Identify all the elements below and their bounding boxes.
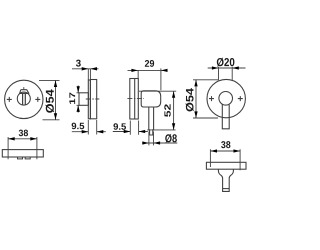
dimension 9.5 left: label <box>72 123 85 130</box>
dimension Ø54 left: extension lines <box>39 80 60 119</box>
dimension 3: arrowheads <box>82 67 97 70</box>
dimension 38 left: dimension line <box>8 138 37 140</box>
dimension 3: label <box>76 60 81 67</box>
dimension Ø20: arrowheads <box>212 66 239 69</box>
left rose profile clip right <box>25 157 30 159</box>
dimension Ø20: label <box>217 58 235 67</box>
right side view flange plate <box>130 79 139 120</box>
dimension 38 right: arrowheads <box>210 149 240 152</box>
dimension 52: label <box>164 104 170 117</box>
dimension 29: dimension line <box>128 69 168 71</box>
dimension Ø8: extension lines <box>149 132 154 146</box>
dimension Ø20: dimension line <box>208 67 246 69</box>
dimension 29: arrowheads <box>131 69 167 72</box>
dimension 9.5 left: dimension line <box>72 131 106 133</box>
left rose profile clip left <box>18 157 23 159</box>
dimension 29: extension lines <box>138 68 161 90</box>
left side view centerline <box>86 98 100 100</box>
dimension 38 right: extension lines <box>210 149 240 170</box>
dimension Ø8: label <box>165 134 177 143</box>
dimension 38 right: dimension line <box>210 150 240 152</box>
dimension 9.5 right: dimension line <box>113 131 148 133</box>
dimension 9.5 right: extension lines <box>130 121 138 135</box>
dimension 9.5 right: arrowheads <box>124 130 146 133</box>
dimension 9.5 left: arrowheads <box>82 130 104 133</box>
dimension 3: dimension line with tails <box>72 68 99 70</box>
dimension Ø54 left: label <box>46 89 55 112</box>
right rose screw mark left <box>209 96 214 101</box>
left rose screw mark left <box>7 97 12 102</box>
thumbturn circle front view <box>17 92 30 105</box>
right knob side view flare and cylinder <box>218 169 233 191</box>
right knob cylinder rim line <box>223 188 230 190</box>
right rose hub circle Ø20 <box>219 92 233 106</box>
left side view thumbturn grip <box>79 93 88 106</box>
left side view body <box>90 80 96 119</box>
left rose profile bar <box>2 150 43 157</box>
dimension 52: dimension line <box>173 91 175 130</box>
dimension 52: arrowheads <box>172 91 175 130</box>
dimension Ø54 right: arrowheads <box>194 80 197 118</box>
right side view flange inner line <box>134 79 136 120</box>
dimension Ø54 right: extension lines <box>193 80 218 118</box>
dimension 38 left: label <box>19 130 28 137</box>
right rose screw mark right <box>238 96 243 101</box>
dimension 17: extension ticks <box>77 93 80 106</box>
right rose profile bar <box>206 162 246 169</box>
left rose screw mark right <box>35 97 40 102</box>
dimension 17: arrowheads <box>77 86 80 112</box>
right side view thumbturn knob <box>141 91 161 107</box>
dimension 52: extension lines <box>139 91 176 130</box>
right side view centerline <box>127 98 144 100</box>
dimension 38 left: extension lines <box>8 137 37 159</box>
right rose front view outer circle <box>207 79 245 117</box>
right side view spindle <box>149 107 154 135</box>
dimension 9.5 left: extension lines <box>88 120 96 135</box>
dimension 38 right: label <box>221 141 230 148</box>
dimension Ø8: arrowheads <box>142 141 160 144</box>
dimension 3: extension lines down to flange <box>88 69 90 80</box>
dimension 17: label <box>69 93 75 104</box>
dimension 9.5 right: label <box>113 123 126 130</box>
thumbturn cap front view <box>20 87 29 93</box>
right rose spindle stem front view <box>222 104 229 129</box>
left rose front view outer circle <box>5 80 43 118</box>
dimension 38 left: arrowheads <box>8 137 37 140</box>
dimension Ø54 right: dimension line <box>195 80 197 118</box>
left side view flange plate 3mm <box>88 80 90 119</box>
thumbturn grip bar lines <box>23 93 26 105</box>
dimension Ø20: extension lines <box>219 67 233 81</box>
dimension Ø8: dimension line <box>142 142 177 144</box>
dimension 29: label <box>145 60 154 67</box>
dimension Ø54 right: label <box>186 88 194 111</box>
dimension 17: dimension line segments <box>77 86 79 113</box>
dimension Ø54 left: dimension line <box>55 80 57 119</box>
dimension Ø54 left: arrowheads <box>54 80 57 119</box>
